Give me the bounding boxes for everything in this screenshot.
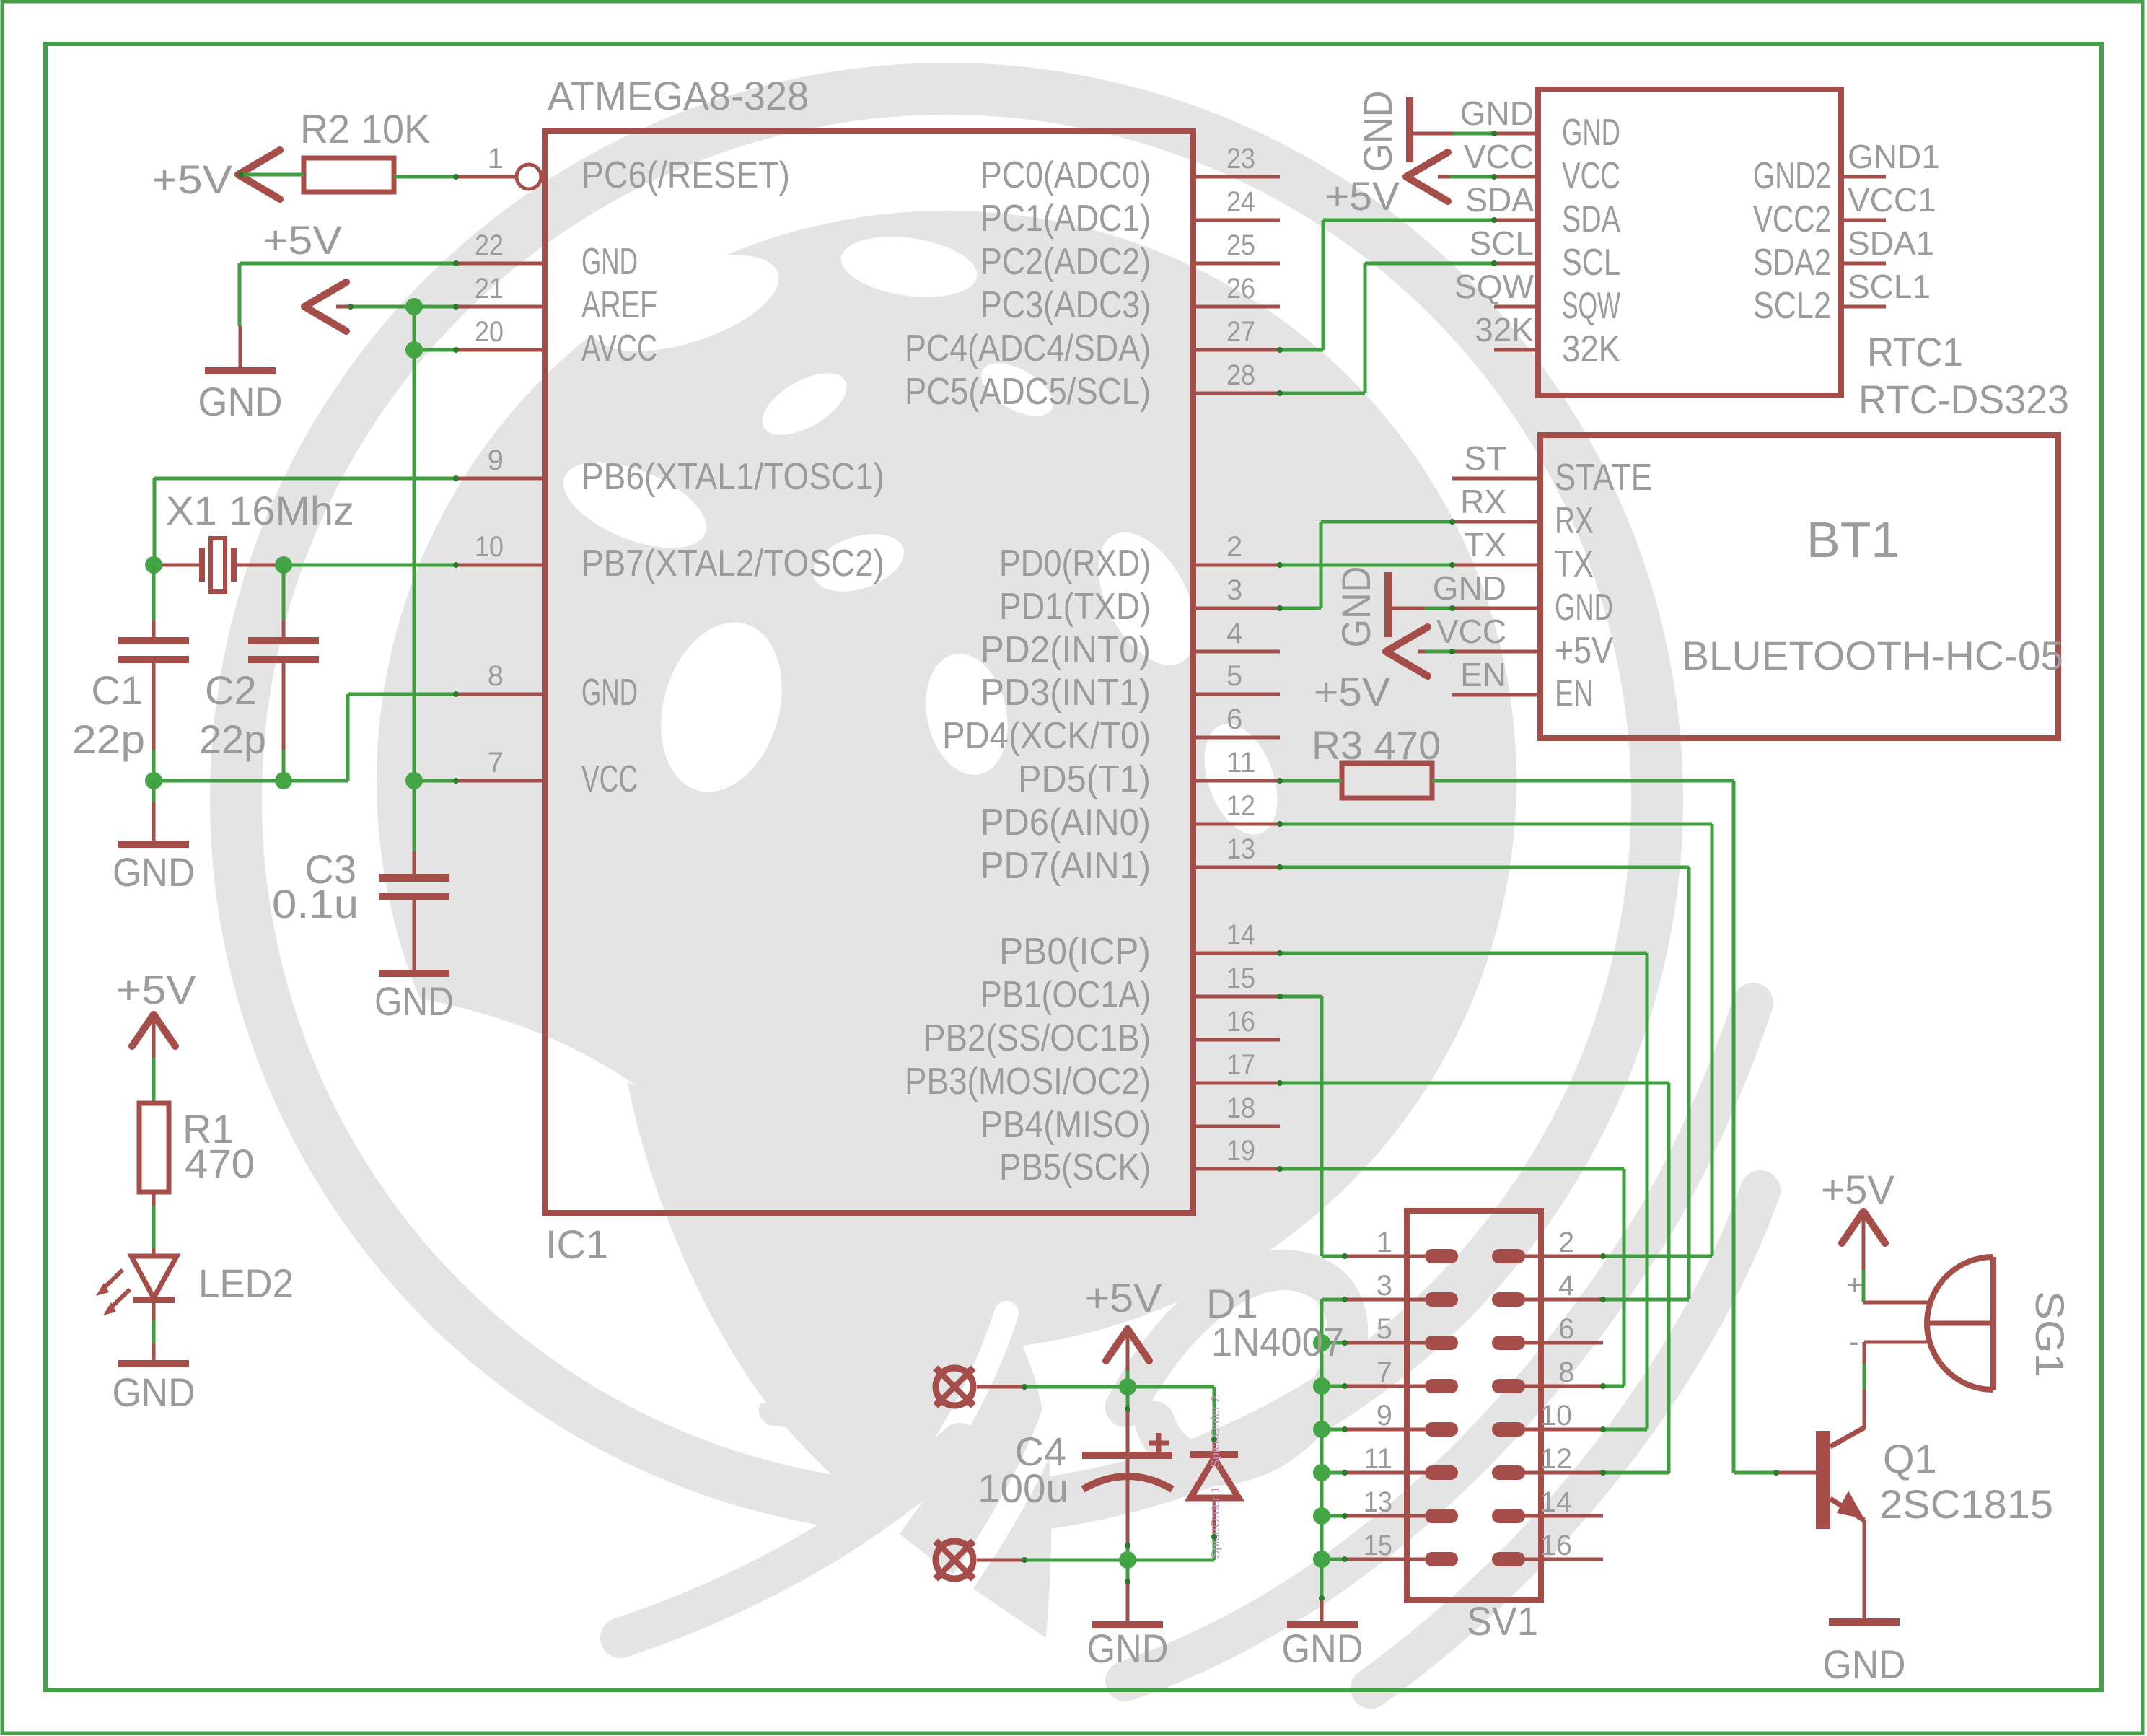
junction at AVCC: [405, 341, 423, 359]
wire net GND (C1 C2 to IC1 pin8): [154, 694, 455, 781]
RTC1 pin SDA (left): [1465, 181, 1620, 240]
wire lamp2 row: [977, 1559, 1214, 1562]
RTC1 pin SDA1 (right): [1753, 224, 1934, 284]
IC1 pin 11 PD5(T1): [1018, 747, 1280, 800]
power +5V symbol (RTC1 VCC): [1325, 152, 1450, 219]
lamp LA1 (top): [936, 1368, 973, 1406]
RTC1 pin VCC (left): [1464, 138, 1620, 197]
IC1 pin 15 PB1(OC1A): [980, 963, 1280, 1016]
svg-text:SDA: SDA: [1465, 181, 1534, 219]
resistor R3 470: [1312, 722, 1441, 798]
svg-text:R3 470: R3 470: [1312, 722, 1441, 768]
junction SV1 GND bus: [1313, 1334, 1330, 1351]
SV1 pin 1 (left) with pad: [1345, 1227, 1458, 1263]
BT1 pin ST: [1452, 439, 1652, 499]
svg-text:GND: GND: [1823, 1641, 1906, 1687]
svg-text:2SC1815: 2SC1815: [1879, 1481, 2053, 1527]
junction SV1 GND bus: [1313, 1377, 1330, 1395]
IC1 pin 3 PD1(TXD): [999, 574, 1280, 628]
svg-text:20: 20: [475, 316, 504, 348]
SV1 pin 6 (right) with pad: [1492, 1313, 1603, 1350]
svg-text:19: 19: [1226, 1135, 1255, 1167]
SV1 pin 3 (left) with pad: [1345, 1270, 1458, 1307]
svg-text:SV1: SV1: [1467, 1598, 1538, 1644]
svg-text:R2 10K: R2 10K: [300, 106, 430, 152]
IC1 pin 13 PD7(AIN1): [980, 833, 1280, 887]
svg-text:+5V: +5V: [1821, 1167, 1895, 1212]
wire BT GND: [1425, 607, 1452, 610]
svg-text:SCL: SCL: [1470, 224, 1534, 262]
RTC1 pin SCL1 (right): [1753, 268, 1931, 327]
ground symbol GND (under C4): [1087, 1625, 1169, 1671]
svg-text:TX: TX: [1555, 543, 1594, 585]
diode D1 1N4007: [1190, 1281, 1344, 1560]
svg-text:+5V: +5V: [152, 157, 233, 202]
svg-text:-: -: [1848, 1324, 1859, 1359]
svg-text:IC1: IC1: [545, 1222, 608, 1267]
power +5V symbol (C4/D1): [1085, 1275, 1163, 1361]
svg-text:PD7(AIN1): PD7(AIN1): [980, 845, 1151, 887]
SV1 pin 10 (right) with pad: [1492, 1400, 1603, 1437]
lamp LA2 (bottom): [936, 1541, 973, 1579]
svg-text:C2: C2: [205, 667, 257, 713]
RTC1 pin SQW (left): [1454, 268, 1620, 327]
svg-text:SCL: SCL: [1562, 242, 1620, 284]
IC1 pin 17 PB3(MOSI/OC2): [905, 1049, 1280, 1102]
SV1 pin 7 (left) with pad: [1345, 1356, 1458, 1393]
wire net SDA (IC1 pin27 to RTC1): [1280, 220, 1494, 350]
svg-text:TX: TX: [1464, 526, 1506, 564]
IC1 pin 7 VCC: [455, 747, 638, 800]
svg-text:3: 3: [1226, 574, 1242, 606]
svg-text:22p: 22p: [72, 716, 145, 762]
svg-text:5: 5: [1226, 660, 1242, 692]
svg-text:+5V: +5V: [1555, 630, 1613, 672]
LED LED2: [96, 1256, 294, 1315]
SV1 pin 8 (right) with pad: [1492, 1356, 1603, 1393]
svg-text:2: 2: [1226, 531, 1242, 563]
svg-text:Q1: Q1: [1883, 1436, 1937, 1481]
BT1 pin EN: [1452, 656, 1594, 715]
svg-text:ATMEGA8-328: ATMEGA8-328: [548, 73, 809, 118]
svg-text:PD6(AIN0): PD6(AIN0): [980, 802, 1151, 843]
junction SV1 GND bus: [1313, 1464, 1330, 1481]
svg-text:14: 14: [1226, 919, 1255, 951]
svg-text:SDA: SDA: [1562, 198, 1620, 240]
svg-text:LED2: LED2: [198, 1261, 294, 1306]
svg-text:12: 12: [1226, 790, 1255, 822]
svg-text:SCL2: SCL2: [1753, 285, 1831, 327]
wire BT VCC: [1425, 650, 1452, 654]
svg-text:PB0(ICP): PB0(ICP): [999, 931, 1151, 973]
svg-text:+5V: +5V: [1085, 1275, 1163, 1320]
SV1 pin 13 (left) with pad: [1345, 1486, 1458, 1523]
wire +5V to R1: [152, 1014, 156, 1103]
ground symbol GND (under C3): [374, 973, 454, 1024]
wire net R3 to Q1 base: [1432, 781, 1816, 1473]
svg-text:GND1: GND1: [1848, 138, 1940, 175]
svg-text:SCL1: SCL1: [1848, 268, 1931, 305]
svg-text:1: 1: [1377, 1227, 1392, 1258]
svg-text:PD5(T1): PD5(T1): [1018, 758, 1151, 800]
svg-text:4: 4: [1558, 1270, 1574, 1302]
power +5V symbol (BT1 VCC): [1314, 627, 1428, 714]
RTC1 pin GND1 (right): [1753, 138, 1940, 197]
svg-text:32K: 32K: [1562, 328, 1620, 370]
svg-text:1N4007: 1N4007: [1211, 1319, 1344, 1364]
svg-text:SQW: SQW: [1562, 285, 1620, 327]
junction +5V node: [1119, 1378, 1136, 1395]
junction X1 left: [145, 556, 162, 574]
RTC1 pin 32K (left): [1475, 311, 1620, 370]
wire net +5V (AREF AVCC VCC): [351, 307, 455, 875]
svg-text:12: 12: [1540, 1443, 1572, 1475]
svg-text:7: 7: [488, 747, 504, 779]
svg-text:10: 10: [475, 531, 504, 563]
svg-text:PD1(TXD): PD1(TXD): [999, 586, 1151, 628]
power +5V symbol (AREF/AVCC): [263, 217, 351, 331]
svg-text:PC6(/RESET): PC6(/RESET): [581, 154, 790, 196]
junction at VCC pin7: [405, 772, 423, 789]
RTC1 pin GND (left): [1460, 95, 1620, 154]
IC1 pin 25 PC2(ADC2): [980, 229, 1280, 283]
svg-text:15: 15: [1226, 963, 1255, 994]
svg-text:PB2(SS/OC1B): PB2(SS/OC1B): [923, 1017, 1151, 1059]
ground symbol GND (RTC1, rotated): [1355, 91, 1453, 172]
svg-text:24: 24: [1226, 186, 1255, 218]
IC1 pin 14 PB0(ICP): [999, 919, 1280, 973]
svg-text:PD0(RXD): PD0(RXD): [999, 543, 1151, 584]
SV1 pin 2 (right) with pad: [1492, 1227, 1603, 1263]
IC1 pin 9 PB6(XTAL1/TOSC1): [455, 444, 884, 498]
wire net RESET (R2 to IC1 pin1): [241, 175, 517, 177]
wire net GND bus (SV1 odd pins): [1322, 1299, 1345, 1622]
capacitor C3 0.1u: [272, 846, 449, 970]
svg-text:PC0(ADC0): PC0(ADC0): [980, 154, 1151, 196]
IC1 pin 8 GND: [455, 660, 638, 714]
wire net TXD (IC1 pin3 to BT1 RX): [1280, 522, 1452, 608]
SV1 pin 5 (left) with pad: [1345, 1313, 1458, 1350]
wire net T1 (IC1 pin11 to R3): [1280, 779, 1342, 783]
ground symbol GND (under C1): [113, 781, 195, 895]
svg-text:GND: GND: [1355, 91, 1400, 172]
IC1 pin 6 PD4(XCK/T0): [942, 703, 1280, 757]
svg-text:21: 21: [475, 273, 504, 304]
wire lamp1 row: [977, 1385, 1214, 1389]
wire +5V down to node: [1126, 1329, 1130, 1387]
svg-text:22p: 22p: [199, 716, 266, 762]
svg-text:PB1(OC1A): PB1(OC1A): [980, 974, 1151, 1016]
wire R1 to LED2: [152, 1192, 156, 1256]
svg-text:GND: GND: [1555, 587, 1613, 628]
svg-text:GND: GND: [581, 672, 638, 714]
RTC1 pin VCC1 (right): [1753, 181, 1936, 240]
junction SV1 GND bus: [1313, 1421, 1330, 1438]
IC1 pin 5 PD3(INT1): [980, 660, 1280, 714]
svg-text:RTC-DS323: RTC-DS323: [1858, 377, 2069, 422]
IC1 pin 24 PC1(ADC1): [980, 186, 1280, 240]
svg-text:2: 2: [1558, 1227, 1574, 1258]
SV1 pin 14 (right) with pad: [1492, 1486, 1603, 1523]
svg-text:AVCC: AVCC: [581, 328, 657, 369]
BT1 pin TX: [1452, 526, 1594, 585]
SV1 pin 16 (right) with pad: [1492, 1530, 1603, 1566]
svg-text:8: 8: [488, 660, 504, 692]
wire net SCK (IC1 pin19 to SV1 pin8): [1280, 1169, 1624, 1386]
svg-text:PB5(SCK): PB5(SCK): [999, 1147, 1151, 1188]
svg-text:EN: EN: [1460, 656, 1506, 693]
svg-text:6: 6: [1226, 703, 1242, 735]
svg-text:GND: GND: [374, 978, 454, 1024]
wire net AIN1 (IC1 pin13 to SV1 pin4): [1280, 867, 1689, 1299]
svg-text:10: 10: [1540, 1400, 1572, 1432]
IC1 pin 22 GND: [455, 229, 638, 283]
svg-text:11: 11: [1226, 747, 1255, 779]
svg-text:PB6(XTAL1/TOSC1): PB6(XTAL1/TOSC1): [581, 456, 884, 498]
svg-text:X1 16Mhz: X1 16Mhz: [166, 488, 354, 533]
wire-end junction dots: [238, 131, 1779, 1601]
svg-text:PB4(MISO): PB4(MISO): [980, 1104, 1151, 1146]
svg-text:PB3(MOSI/OC2): PB3(MOSI/OC2): [905, 1061, 1151, 1102]
wire C4 bottom to GND: [1126, 1560, 1130, 1622]
wire net ICP (IC1 pin14 to SV1 pin10): [1280, 953, 1647, 1429]
IC1 pin 21 AREF: [455, 273, 657, 326]
junction C1 bottom: [145, 772, 162, 789]
svg-text:+5V: +5V: [1325, 173, 1400, 219]
svg-text:22: 22: [475, 229, 504, 261]
svg-text:+5V: +5V: [116, 967, 197, 1012]
svg-text:GND: GND: [113, 849, 195, 895]
speaker SG1: [1846, 1257, 2073, 1390]
SV1 pin 11 (left) with pad: [1345, 1443, 1458, 1480]
svg-text:GND: GND: [1282, 1626, 1364, 1671]
wire net AIN0 (IC1 pin12 to SV1 pin2): [1280, 824, 1712, 1256]
svg-text:PB7(XTAL2/TOSC2): PB7(XTAL2/TOSC2): [581, 543, 884, 584]
IC1 pin 10 PB7(XTAL2/TOSC2): [455, 531, 884, 584]
junction GND node (C4 bottom): [1119, 1551, 1136, 1569]
svg-text:VCC: VCC: [1464, 138, 1534, 175]
svg-text:PC2(ADC2): PC2(ADC2): [980, 241, 1151, 283]
svg-text:9: 9: [1377, 1400, 1392, 1432]
svg-text:9: 9: [488, 444, 504, 476]
IC1 pin 20 AVCC: [455, 316, 657, 369]
capacitor C4 100u (polarized): [978, 1387, 1172, 1560]
svg-text:GND: GND: [1333, 566, 1379, 648]
svg-text:7: 7: [1377, 1356, 1392, 1388]
junction at AREF: [405, 298, 423, 315]
SV1 pin 4 (right) with pad: [1492, 1270, 1603, 1307]
svg-text:13: 13: [1226, 833, 1255, 865]
module BT1 BLUETOOTH-HC-05 body: [1540, 435, 2058, 738]
svg-text:15: 15: [1364, 1530, 1392, 1561]
junction C2 bottom: [275, 772, 292, 789]
svg-text:+5V: +5V: [1314, 669, 1391, 714]
capacitor C1 22p: [72, 565, 189, 781]
svg-text:32K: 32K: [1475, 311, 1534, 348]
svg-text:27: 27: [1226, 316, 1255, 348]
svg-text:BLUETOOTH-HC-05: BLUETOOTH-HC-05: [1682, 633, 2063, 678]
svg-text:RX: RX: [1460, 483, 1506, 520]
wire net XTAL1 (IC1 pin9 to X1): [154, 478, 455, 565]
ground symbol GND (under SV1): [1282, 1625, 1364, 1671]
resistor R1 470: [139, 1103, 255, 1192]
capacitor C2 22p: [199, 565, 319, 781]
transistor Q1 2SC1815: [1816, 1427, 2053, 1529]
svg-text:11: 11: [1364, 1443, 1392, 1475]
svg-text:18: 18: [1226, 1092, 1255, 1124]
svg-text:PD3(INT1): PD3(INT1): [980, 672, 1151, 714]
power +5V symbol (R2 pullup): [152, 150, 280, 202]
svg-text:ST: ST: [1464, 439, 1506, 477]
svg-text:5: 5: [1377, 1313, 1392, 1345]
svg-text:PD2(INT0): PD2(INT0): [980, 629, 1151, 671]
svg-text:SG1: SG1: [2027, 1291, 2073, 1377]
svg-text:GND2: GND2: [1753, 155, 1831, 197]
svg-text:RX: RX: [1555, 500, 1594, 542]
svg-text:PD4(XCK/T0): PD4(XCK/T0): [942, 715, 1151, 757]
svg-text:470: 470: [185, 1141, 255, 1186]
junction SV1 GND bus: [1313, 1551, 1330, 1568]
svg-text:3: 3: [1377, 1270, 1392, 1302]
wire net SCL (IC1 pin28 to RTC1): [1280, 263, 1494, 393]
svg-text:4: 4: [1226, 618, 1242, 649]
module RTC1 RTC-DS323 body: [1538, 89, 1841, 395]
RTC1 pin SCL (left): [1470, 224, 1620, 284]
svg-text:17: 17: [1226, 1049, 1255, 1081]
svg-text:GND: GND: [1562, 112, 1620, 154]
crystal X1 16Mhz: [154, 488, 354, 592]
svg-text:VCC: VCC: [1562, 155, 1620, 197]
svg-text:GND: GND: [113, 1369, 196, 1415]
IC U IC1 ATMEGA8-328 body: [545, 131, 1193, 1213]
svg-text:0.1u: 0.1u: [272, 881, 359, 926]
svg-text:PC4(ADC4/SDA): PC4(ADC4/SDA): [905, 328, 1151, 369]
svg-text:16: 16: [1540, 1530, 1572, 1561]
power +5V symbol (R1): [116, 967, 197, 1046]
ground symbol GND (under LED2): [113, 1364, 196, 1415]
svg-text:VCC: VCC: [581, 758, 638, 800]
svg-text:+: +: [1846, 1269, 1863, 1301]
svg-text:SDA1: SDA1: [1848, 224, 1934, 262]
svg-text:25: 25: [1226, 229, 1255, 261]
svg-text:BT1: BT1: [1806, 512, 1899, 568]
IC1 pin 23 PC0(ADC0): [980, 143, 1280, 196]
svg-text:16: 16: [1226, 1006, 1255, 1038]
power +5V symbol (SG1): [1821, 1167, 1895, 1243]
svg-text:13: 13: [1364, 1486, 1392, 1518]
IC1 pin 2 PD0(RXD): [999, 531, 1280, 584]
IC1 pin 26 PC3(ADC3): [980, 273, 1280, 326]
wire Q1 collector to SG1 minus: [1864, 1342, 1931, 1429]
svg-text:PC3(ADC3): PC3(ADC3): [980, 284, 1151, 326]
wire net OC1A (IC1 pin15 to SV1 pin1): [1280, 996, 1345, 1256]
svg-text:GND: GND: [198, 379, 283, 424]
svg-text:AREF: AREF: [581, 284, 657, 326]
svg-text:PC1(ADC1): PC1(ADC1): [980, 198, 1151, 240]
SV1 pin 12 (right) with pad: [1492, 1443, 1603, 1480]
connector SV1 body: [1407, 1211, 1541, 1600]
BT1 pin GND: [1433, 569, 1613, 628]
wire RTC GND: [1453, 132, 1494, 136]
wire net RXD (IC1 pin2 to BT1 TX): [1280, 564, 1452, 567]
ground symbol GND (pin22): [198, 371, 283, 424]
wire Q1 emitter to GND: [1863, 1520, 1866, 1619]
svg-text:GND: GND: [581, 241, 638, 283]
SV1 pin 15 (left) with pad: [1345, 1530, 1458, 1566]
svg-text:VCC: VCC: [1436, 613, 1506, 650]
SV1 pin 9 (left) with pad: [1345, 1400, 1458, 1437]
IC1 pin 28 PC5(ADC5/SCL): [905, 359, 1280, 413]
svg-text:EN: EN: [1555, 673, 1594, 715]
wire net GND (IC1 pin 22): [240, 263, 455, 369]
svg-text:SpiceOrder 2: SpiceOrder 2: [1208, 1395, 1222, 1468]
svg-text:+5V: +5V: [263, 217, 343, 263]
svg-text:100u: 100u: [978, 1465, 1068, 1511]
IC1 pin 16 PB2(SS/OC1B): [923, 1006, 1280, 1059]
svg-text:PC5(ADC5/SCL): PC5(ADC5/SCL): [905, 371, 1151, 413]
svg-text:VCC1: VCC1: [1848, 181, 1936, 219]
svg-text:GND: GND: [1433, 569, 1506, 607]
svg-text:GND: GND: [1460, 95, 1534, 132]
svg-text:SDA2: SDA2: [1753, 242, 1831, 284]
IC1 pin 19 PB5(SCK): [999, 1135, 1280, 1188]
svg-text:STATE: STATE: [1555, 457, 1652, 499]
BT1 pin VCC: [1436, 613, 1613, 672]
svg-text:8: 8: [1558, 1356, 1574, 1388]
ground symbol GND (under Q1): [1823, 1622, 1906, 1687]
resistor R2 10K: [300, 106, 430, 192]
svg-text:GND: GND: [1087, 1626, 1169, 1671]
wire +5V to SG1 plus: [1863, 1211, 1931, 1302]
svg-text:RTC1: RTC1: [1867, 329, 1963, 374]
wire net MOSI (IC1 pin17 to SV1 pin12): [1280, 1083, 1669, 1473]
svg-text:14: 14: [1540, 1486, 1572, 1518]
IC1 pin 18 PB4(MISO): [980, 1092, 1280, 1146]
svg-text:SQW: SQW: [1454, 268, 1534, 305]
svg-text:1: 1: [488, 143, 504, 175]
svg-text:28: 28: [1226, 359, 1255, 391]
svg-text:26: 26: [1226, 273, 1255, 304]
IC1 pin 12 PD6(AIN0): [980, 790, 1280, 843]
svg-text:C1: C1: [91, 667, 143, 713]
wire RTC VCC: [1450, 175, 1494, 179]
svg-text:6: 6: [1558, 1313, 1574, 1345]
IC1 pin 1 PC6(/RESET): [455, 143, 790, 196]
junction SV1 GND bus: [1313, 1507, 1330, 1525]
wire net XTAL2 (IC1 pin10 to X1): [284, 564, 455, 567]
IC1 pin 27 PC4(ADC4/SDA): [905, 316, 1280, 369]
junction X1 right: [275, 556, 292, 574]
IC1 pin 4 PD2(INT0): [980, 618, 1280, 671]
wire LED2 to GND: [152, 1300, 156, 1361]
svg-text:VCC2: VCC2: [1753, 198, 1831, 240]
ground symbol GND (BT1, rotated): [1333, 566, 1425, 648]
svg-text:23: 23: [1226, 143, 1255, 175]
svg-text:SpiceOrder 1: SpiceOrder 1: [1208, 1486, 1222, 1559]
BT1 pin RX: [1452, 483, 1594, 542]
